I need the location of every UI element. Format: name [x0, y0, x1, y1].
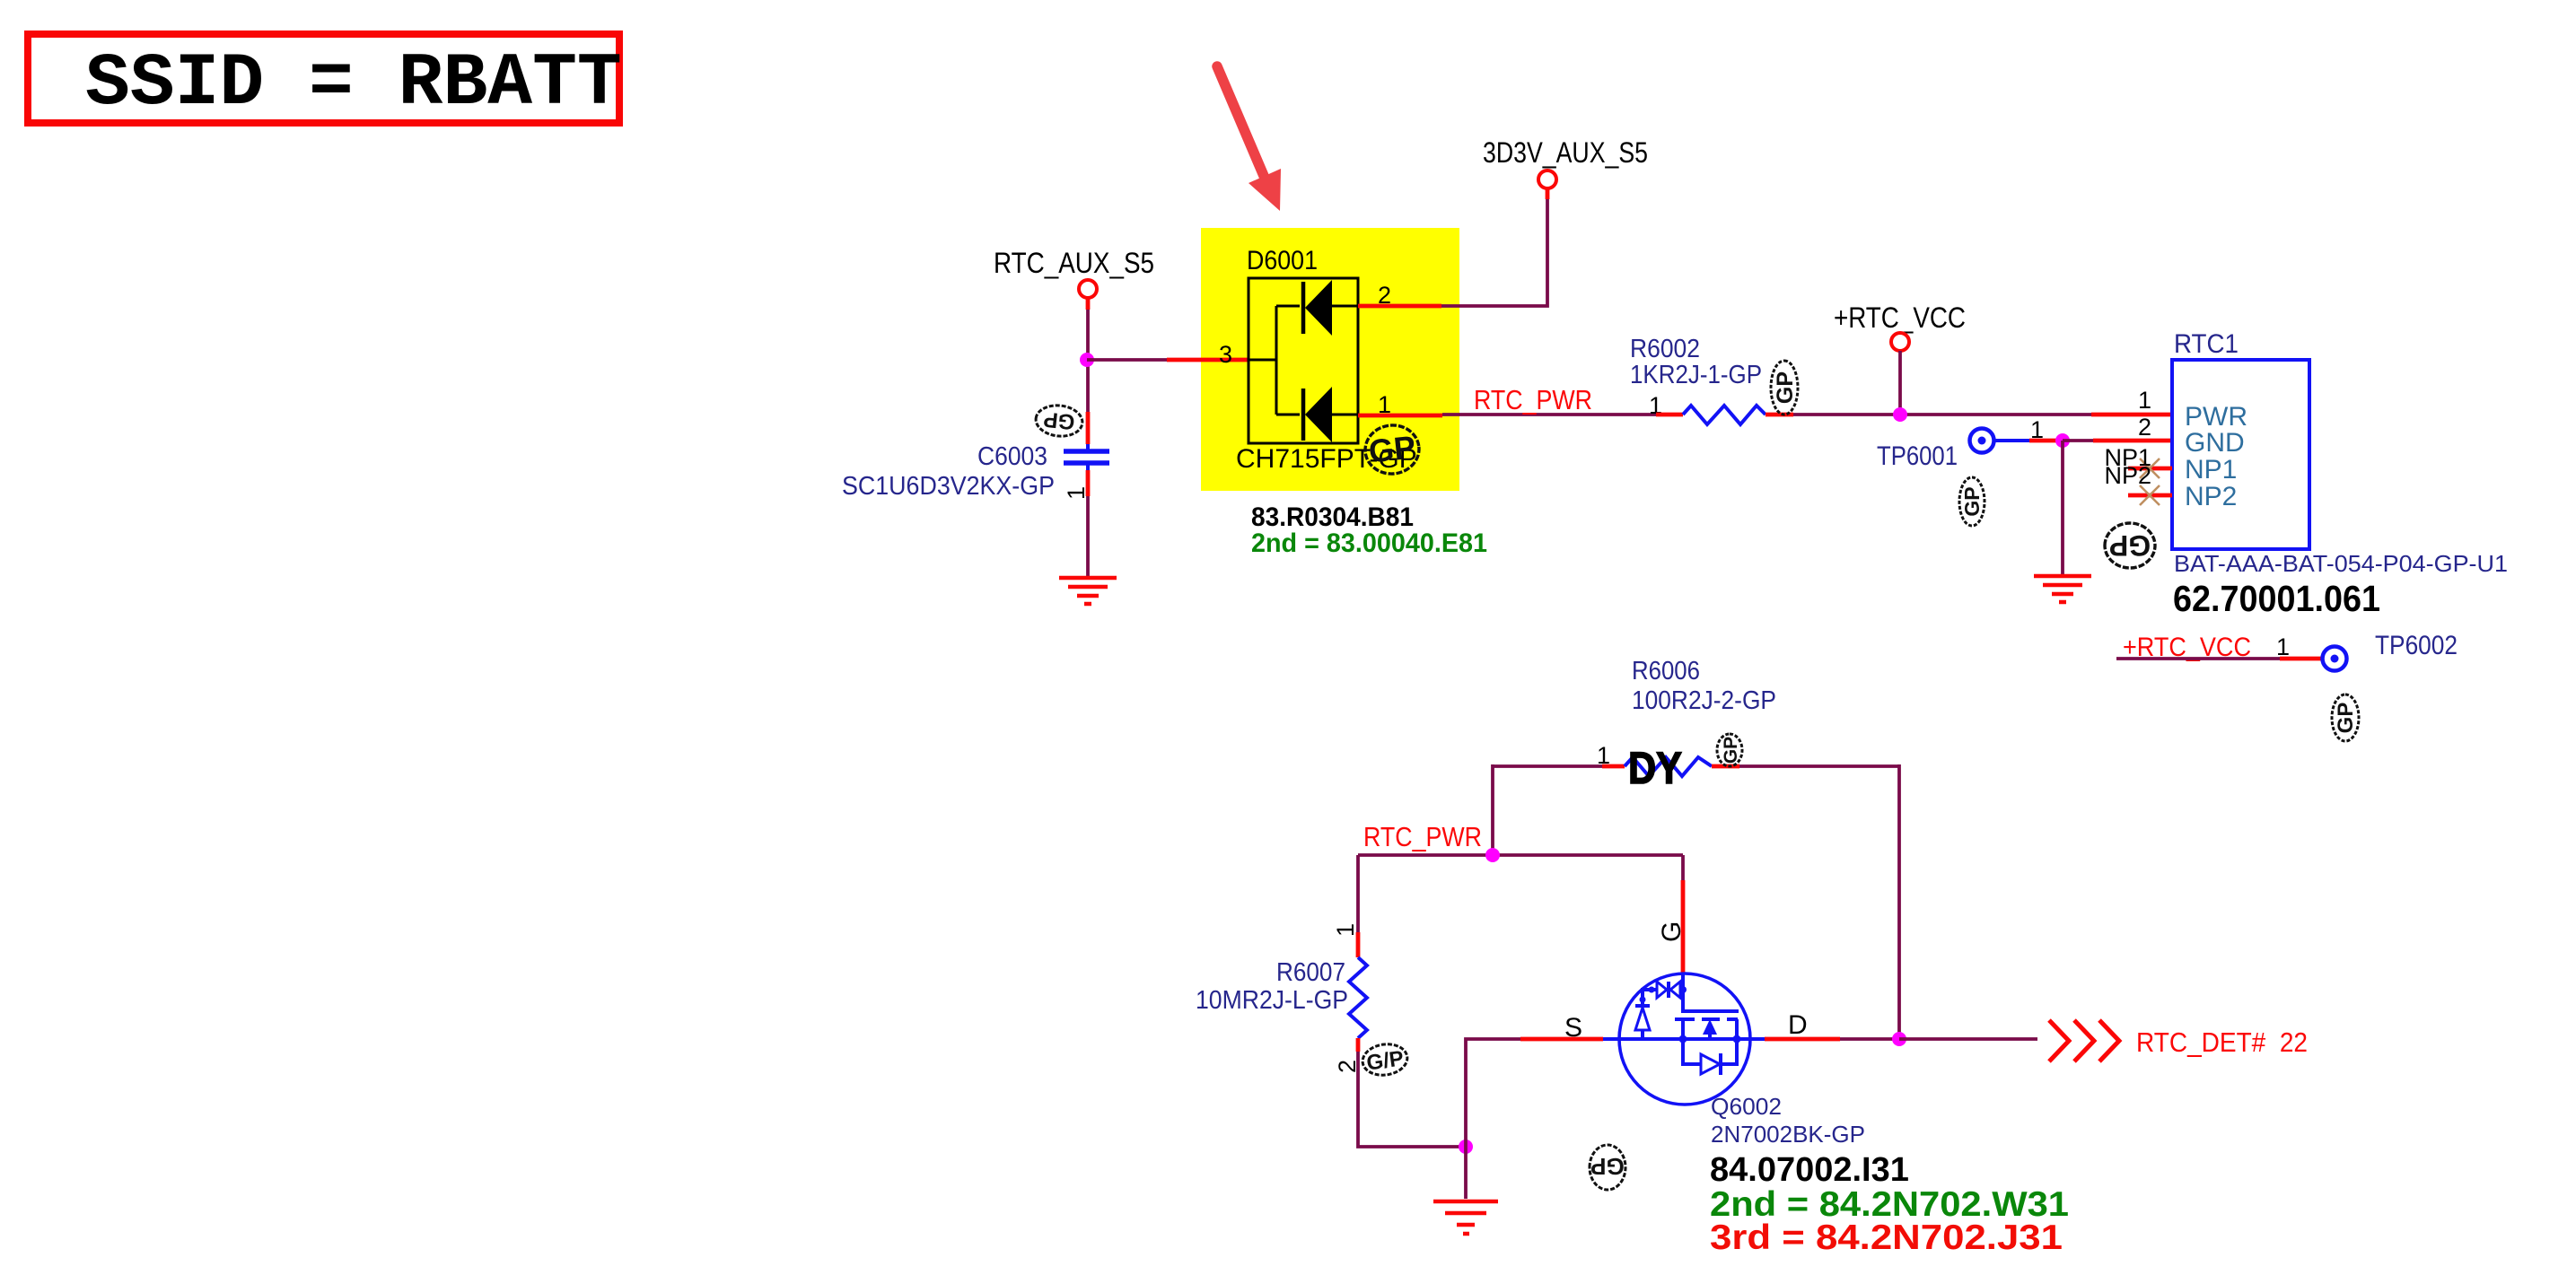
svg-text:GP: GP: [1773, 371, 1798, 404]
transistor Q6002 2N7002BK-GP (N-MOSFET with ESD diodes): [1603, 974, 1765, 1105]
svg-text:G/P: G/P: [1365, 1046, 1406, 1075]
wire red source segment: [1520, 1037, 1603, 1042]
wire 3D3V_AUX_S5 vertical: [1441, 199, 1547, 306]
svg-text:RTC1: RTC1: [2174, 329, 2239, 359]
svg-text:DY: DY: [1628, 743, 1682, 793]
pin NP2 stub: [2128, 493, 2172, 498]
SSID = RBATT annotation box: [28, 34, 622, 126]
svg-text:NP1: NP1: [2185, 455, 2237, 485]
svg-text:3D3V_AUX_S5: 3D3V_AUX_S5: [1483, 136, 1648, 169]
wire C6003 to ground: [1086, 496, 1090, 577]
test point TP6001: [1877, 416, 2044, 471]
svg-text:RTC_DET# 22: RTC_DET# 22: [2136, 1026, 2308, 1058]
svg-text:1: 1: [1332, 923, 1359, 937]
wire RTC_PWR left end down to R6007: [1356, 855, 1360, 932]
net label 3D3V_AUX_S5: [1483, 136, 1648, 188]
svg-text:RTC_AUX_S5: RTC_AUX_S5: [994, 247, 1154, 279]
wire +RTC_VCC drop: [1898, 351, 1902, 415]
wire red stub into RTC1 pin 1: [2091, 413, 2172, 417]
resistor R6002 1KR2J-1-GP: [1630, 335, 1793, 424]
svg-text:3: 3: [1219, 341, 1232, 368]
wire TP6001 red segment: [2029, 439, 2063, 443]
svg-text:2nd = 83.00040.E81: 2nd = 83.00040.E81: [1251, 528, 1487, 558]
no-connect X on NP2: [2140, 485, 2160, 505]
GP stamp (TP6001): [1959, 477, 1985, 526]
wire gate drop maroon: [1681, 855, 1685, 880]
svg-text:GP: GP: [1590, 1153, 1625, 1180]
battery connector RTC1: [2138, 329, 2309, 549]
svg-text:10MR2J-L-GP: 10MR2J-L-GP: [1196, 986, 1348, 1015]
svg-text:1: 1: [2276, 633, 2290, 660]
svg-text:SC1U6D3V2KX-GP: SC1U6D3V2KX-GP: [842, 472, 1055, 501]
GP stamp (R6006): [1717, 734, 1742, 766]
svg-text:S: S: [1564, 1013, 1582, 1043]
wire R6006 left to corner: [1493, 764, 1602, 768]
pin NP1 stub: [2128, 467, 2172, 471]
diode D6001 (dual common-cathode, CH715FPT-GP): [1219, 246, 1417, 474]
wire drain junction to off-page: [1899, 1037, 2037, 1041]
wire drain to junction: [1840, 1037, 1899, 1041]
wire R6007 down to ground junction: [1358, 1052, 1466, 1147]
svg-text:TP6002: TP6002: [2375, 631, 2458, 660]
resistor R6007 10MR2J-L-GP: [1196, 923, 1367, 1073]
svg-text:Q6002: Q6002: [1711, 1093, 1782, 1120]
GP stamp (D6001): [1362, 423, 1421, 476]
GP stamp (R6002): [1771, 361, 1798, 415]
wire gate drop red: [1681, 880, 1686, 974]
svg-text:3rd = 84.2N702.J31: 3rd = 84.2N702.J31: [1710, 1218, 2063, 1257]
yellow highlight over D6001: [1201, 228, 1459, 491]
ground (TP6001 net): [2034, 576, 2091, 602]
wire corner down to RTC_PWR junction: [1491, 764, 1494, 855]
wire junction down to ground: [1464, 1147, 1468, 1199]
node +RTC_VCC junction: [1893, 407, 1907, 422]
svg-text:TP6001: TP6001: [1877, 441, 1958, 471]
wire red drain segment: [1765, 1037, 1840, 1042]
wire R6006 right to corner: [1739, 764, 1899, 768]
svg-text:NP2: NP2: [2104, 462, 2151, 489]
wire diode pin 1 red stub: [1358, 414, 1442, 418]
red annotation arrow: [1217, 66, 1281, 211]
GP stamp (R6007): [1361, 1042, 1409, 1079]
wire red stub R6007 pin 2: [1356, 1038, 1361, 1052]
power node +RTC_VCC: [1834, 301, 1966, 351]
wire right corner down to drain junction: [1897, 764, 1901, 1039]
wire RTC_AUX_S5 vertical: [1086, 310, 1090, 412]
svg-text:GP: GP: [1721, 737, 1741, 764]
svg-text:84.07002.I31: 84.07002.I31: [1710, 1151, 1909, 1189]
ground (Q6002 source): [1433, 1201, 1498, 1234]
svg-text:RTC_PWR: RTC_PWR: [1363, 821, 1482, 852]
wire red pin 3 stub: [1167, 358, 1249, 362]
svg-text:D6001: D6001: [1247, 246, 1318, 275]
svg-text:GP: GP: [1042, 406, 1075, 433]
wire diode pin 2 red stub: [1358, 304, 1441, 309]
off-page connector chevrons: [2049, 1020, 2119, 1061]
svg-text:1KR2J-1-GP: 1KR2J-1-GP: [1630, 361, 1762, 389]
node drain junction: [1892, 1032, 1906, 1046]
svg-text:GP: GP: [2109, 529, 2151, 562]
svg-text:GP: GP: [1960, 486, 1984, 516]
svg-text:GND: GND: [2185, 428, 2245, 458]
svg-text:100R2J-2-GP: 100R2J-2-GP: [1632, 686, 1776, 715]
svg-text:BAT-AAA-BAT-054-P04-GP-U1: BAT-AAA-BAT-054-P04-GP-U1: [2174, 550, 2508, 577]
svg-text:2N7002BK-GP: 2N7002BK-GP: [1711, 1121, 1865, 1148]
resistor R6006 100R2J-2-GP: [1597, 657, 1776, 776]
svg-text:1: 1: [1063, 486, 1090, 500]
svg-text:G: G: [1657, 921, 1687, 942]
wire 3D3V_AUX_S5 stub: [1546, 189, 1550, 199]
svg-text:NP2: NP2: [2185, 482, 2237, 511]
wire junction to diode pin 3: [1087, 358, 1167, 362]
svg-text:62.70001.061: 62.70001.061: [2173, 578, 2380, 619]
svg-text:D: D: [1788, 1010, 1808, 1040]
no-connect X on NP1: [2140, 458, 2160, 478]
node RTC_PWR junction: [1485, 848, 1500, 862]
wire RTC_PWR horizontal: [1358, 853, 1683, 857]
wire R6002 to RTC1: [1793, 413, 2091, 416]
ground (C6003): [1059, 578, 1117, 604]
svg-text:R6007: R6007: [1276, 958, 1345, 987]
svg-text:GP: GP: [1367, 428, 1417, 469]
svg-text:2: 2: [2138, 414, 2151, 441]
wire RTC_AUX_S5 stub: [1086, 299, 1091, 310]
wire RTC_PWR run to R6002: [1442, 413, 1656, 416]
node source/ground junction: [1459, 1140, 1473, 1154]
node GND net junction: [2055, 433, 2070, 448]
node RTC_AUX_S5 junction: [1080, 353, 1094, 367]
GP stamp (C6003): [1034, 403, 1083, 438]
wire red stub into RTC1 pin 2: [2093, 439, 2172, 443]
net label RTC_AUX_S5: [994, 247, 1154, 298]
wire junction to RTC1 pin 2: [2063, 439, 2093, 442]
svg-text:R6002: R6002: [1630, 335, 1700, 363]
test point TP6002: [2323, 631, 2458, 671]
wire red stub R6007 pin 1: [1356, 932, 1361, 957]
svg-text:GP: GP: [2334, 703, 2358, 734]
wire junction up to source corner: [1466, 1039, 1520, 1147]
GP stamp (TP6002): [2332, 694, 2359, 741]
svg-text:+RTC_VCC: +RTC_VCC: [1834, 301, 1966, 334]
svg-text:C6003: C6003: [977, 442, 1047, 471]
power rail label +RTC_VCC (to TP6002): [2116, 633, 2321, 662]
svg-text:1: 1: [2138, 387, 2151, 414]
GP stamp (RTC1): [2105, 523, 2155, 568]
svg-text:SSID = RBATT: SSID = RBATT: [85, 41, 622, 126]
svg-text:RTC_PWR: RTC_PWR: [1474, 384, 1592, 415]
capacitor C6003: [842, 412, 1109, 501]
GP stamp (Q6002): [1590, 1145, 1625, 1190]
wire junction to ground: [2061, 441, 2064, 575]
svg-text:R6006: R6006: [1632, 657, 1700, 686]
